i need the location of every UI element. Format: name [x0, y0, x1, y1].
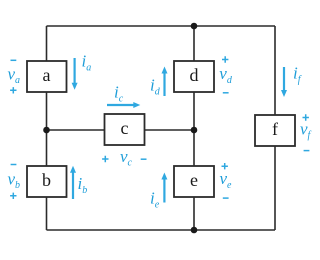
svg-text:e: e	[190, 170, 198, 190]
element a box	[27, 61, 67, 92]
label plus of v_a	[10, 87, 16, 93]
svg-text:ia: ia	[82, 52, 92, 74]
current arrow i_e	[161, 173, 167, 203]
svg-text:ve: ve	[220, 169, 233, 191]
label plus of v_e	[222, 163, 228, 169]
current arrow i_a	[72, 58, 78, 90]
svg-text:vc: vc	[120, 147, 133, 169]
label minus of v_f	[304, 150, 310, 152]
label minus of v_a	[11, 59, 17, 61]
wire d-bottom	[193, 92, 195, 166]
current arrow i_c	[107, 102, 140, 108]
svg-text:ic: ic	[114, 83, 124, 105]
svg-text:ib: ib	[78, 174, 88, 196]
element f box	[255, 115, 295, 146]
svg-text:va: va	[8, 64, 21, 86]
svg-text:c: c	[121, 118, 129, 138]
svg-text:a: a	[43, 65, 51, 85]
junction dot mid-d	[191, 127, 198, 134]
label minus of v_d	[223, 92, 229, 94]
svg-text:id: id	[150, 76, 161, 98]
label minus of v_c	[141, 158, 147, 160]
wire e-bottom	[193, 197, 195, 230]
junction dot left-mid	[43, 127, 50, 134]
wire mid-right	[145, 129, 195, 131]
junction dot bottom-e	[191, 227, 198, 234]
wire b-bottom	[46, 197, 48, 230]
current arrow i_f	[281, 67, 287, 97]
svg-text:if: if	[293, 64, 302, 86]
element c box	[105, 114, 145, 145]
current arrow i_b	[70, 166, 76, 199]
label plus of v_c	[102, 156, 108, 162]
svg-text:ie: ie	[150, 189, 160, 211]
label minus of v_b	[11, 164, 17, 166]
label plus of v_b	[10, 193, 16, 199]
svg-text:vd: vd	[219, 64, 233, 86]
wire b-top	[46, 130, 48, 166]
element b box	[27, 166, 67, 197]
svg-text:f: f	[272, 119, 278, 139]
svg-text:vb: vb	[8, 169, 21, 191]
svg-text:b: b	[42, 170, 51, 190]
wire mid-left	[47, 129, 105, 131]
current arrow i_d	[162, 67, 168, 97]
wire a-top	[46, 26, 48, 61]
wire d-top	[193, 26, 195, 61]
label minus of v_e	[223, 197, 229, 199]
wire top	[47, 25, 276, 27]
junction dot top-d	[191, 23, 198, 30]
wire a-bottom	[46, 92, 48, 130]
svg-text:vf: vf	[300, 119, 312, 141]
wire f-top	[274, 26, 276, 115]
label plus of v_f	[303, 114, 309, 120]
element e box	[174, 166, 214, 197]
svg-text:d: d	[190, 65, 199, 85]
element d box	[174, 61, 214, 92]
label plus of v_d	[222, 56, 228, 62]
wire f-bottom	[274, 146, 276, 230]
wire bottom	[47, 229, 276, 231]
